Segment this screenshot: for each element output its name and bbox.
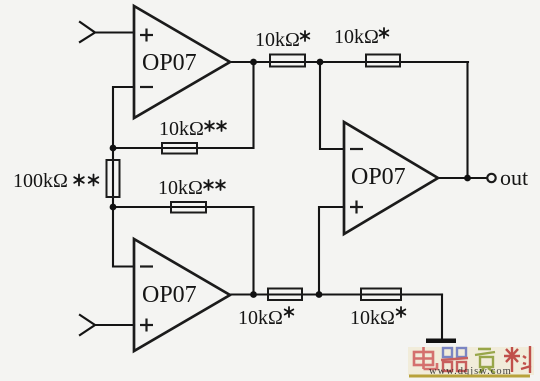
wire 100k vertical bbox=[112, 148, 114, 207]
watermark logo bbox=[408, 346, 534, 378]
asterisk R2 bbox=[380, 28, 389, 38]
watermark underline bbox=[409, 375, 530, 378]
svg-text:10kΩ: 10kΩ bbox=[334, 26, 379, 48]
watermark char dian bbox=[414, 347, 437, 369]
watermark glow bbox=[408, 347, 534, 375]
resistor R2 top-right 10k bbox=[366, 55, 400, 67]
wire to ground bbox=[441, 295, 443, 340]
node 100k lower junction bbox=[110, 204, 117, 211]
wire A2 output row bbox=[230, 293, 442, 295]
svg-text:10kΩ: 10kΩ bbox=[159, 118, 204, 140]
minus sign U2 bbox=[140, 265, 153, 267]
wire feedback top 10k bbox=[113, 62, 254, 148]
node junction dots bbox=[110, 59, 471, 298]
wire A3 output bbox=[438, 177, 487, 179]
minus sign U3 bbox=[350, 148, 363, 150]
watermark char zi bbox=[475, 349, 495, 373]
op-amp U2 bbox=[134, 239, 230, 351]
resistor R6 bottom-left 10k bbox=[268, 289, 302, 301]
node top-left junction bbox=[250, 59, 257, 66]
svg-text:OP07: OP07 bbox=[142, 282, 197, 308]
resistor R1 top-left 10k bbox=[270, 55, 305, 67]
wire A1 output to node row bbox=[230, 61, 468, 63]
svg-text:OP07: OP07 bbox=[142, 50, 197, 76]
svg-text:10kΩ: 10kΩ bbox=[158, 177, 203, 199]
asterisk R6 bbox=[285, 307, 294, 317]
wire A3 non-inverting input bbox=[319, 207, 344, 295]
node bottom-mid junction bbox=[316, 291, 323, 298]
wire top input bbox=[95, 31, 134, 33]
node 100k upper junction bbox=[110, 145, 117, 152]
input arrow top bbox=[80, 22, 95, 42]
wire bottom input bbox=[95, 324, 134, 326]
watermark char liao bbox=[504, 346, 531, 373]
node top-mid junction bbox=[317, 59, 324, 66]
svg-text:10kΩ: 10kΩ bbox=[350, 307, 395, 329]
plus sign U3 bbox=[350, 201, 363, 214]
resistor R4 feedback 10k lower bbox=[171, 202, 206, 213]
asterisks R5 bbox=[74, 175, 84, 186]
svg-text:OP07: OP07 bbox=[351, 164, 406, 190]
svg-text:10kΩ: 10kΩ bbox=[238, 307, 283, 329]
asterisk marks bbox=[74, 28, 405, 317]
wire right vertical to output node bbox=[466, 62, 468, 178]
resistor R3 feedback 10k upper bbox=[162, 143, 197, 154]
watermark char qi bbox=[441, 348, 468, 371]
node bottom-left junction bbox=[250, 291, 257, 298]
ground bbox=[426, 339, 456, 344]
wire A1 inverting input bbox=[113, 87, 134, 148]
asterisks R3 bbox=[205, 121, 214, 131]
wire bottom 10k to A2 output row bbox=[113, 207, 254, 295]
wire A3 inverting input bbox=[320, 62, 344, 149]
asterisk R1 bbox=[301, 31, 310, 41]
asterisk R7 bbox=[397, 307, 406, 317]
wire A2 inverting input bbox=[113, 207, 134, 267]
svg-text:out: out bbox=[500, 165, 528, 190]
svg-text:10kΩ: 10kΩ bbox=[255, 29, 300, 51]
op-amp U1 bbox=[134, 6, 230, 118]
plus sign U2 bbox=[140, 319, 153, 332]
plus sign U1 bbox=[140, 29, 153, 42]
minus sign U1 bbox=[140, 86, 153, 88]
out terminal bbox=[487, 174, 495, 182]
node output junction bbox=[464, 175, 471, 182]
input arrow bottom bbox=[80, 315, 95, 335]
resistor R5 100k vertical bbox=[107, 160, 120, 197]
resistor R7 bottom-right 10k bbox=[361, 289, 401, 301]
svg-text:100kΩ: 100kΩ bbox=[13, 170, 68, 192]
asterisks R4 bbox=[204, 180, 213, 190]
op-amp U3 bbox=[344, 122, 438, 234]
